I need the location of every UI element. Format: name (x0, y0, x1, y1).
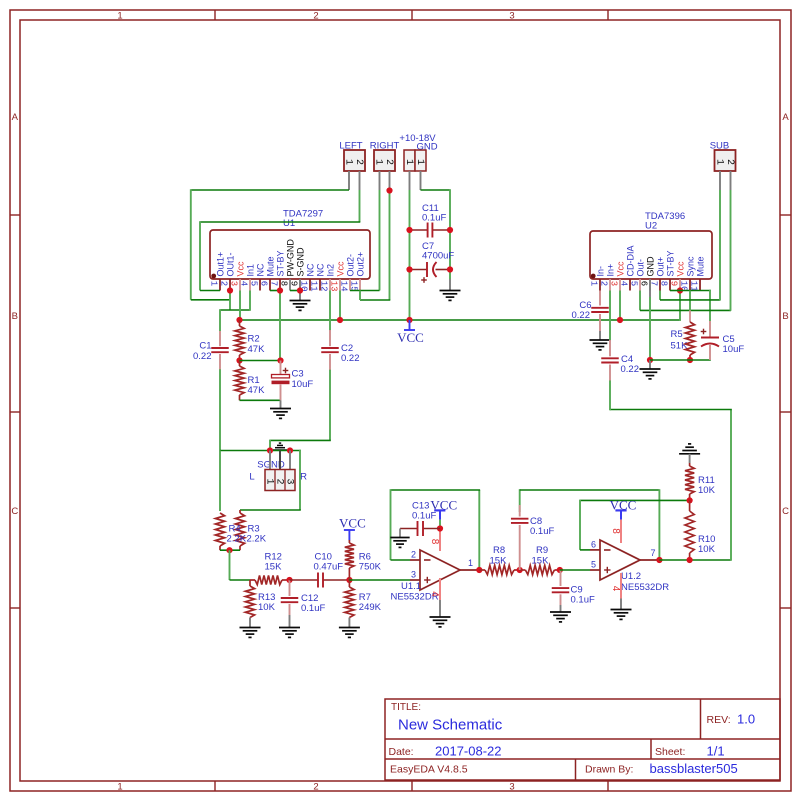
wire into U1.1 pin2 (391, 559, 411, 561)
wire U1.2 feedback top (520, 489, 660, 491)
junction C11 left (406, 227, 412, 233)
ground below R7 (348, 618, 350, 628)
svg-text:3: 3 (509, 11, 514, 22)
junction R2 bottom (236, 357, 242, 363)
VCC net flag symbol (409, 320, 411, 330)
wire to U1 pin1 (200, 290, 220, 292)
ground below R13 (249, 618, 251, 628)
svg-text:0.1uF: 0.1uF (412, 511, 436, 522)
svg-text:4700uF: 4700uF (422, 251, 454, 262)
junction R5 bottom (687, 357, 693, 363)
wire feedback U1.1 left down (390, 489, 392, 560)
svg-text:Out1+: Out1+ (215, 252, 225, 277)
capacitor C5 polarized (709, 321, 711, 337)
svg-text:10uF: 10uF (723, 344, 745, 355)
VCC flag U1.1 (439, 510, 441, 519)
op-amp U1.1 triangle (420, 550, 460, 590)
wire R4 top (219, 451, 221, 512)
resistor R11 (689, 463, 691, 466)
wire U1 pin12 down (329, 291, 331, 331)
wire mute net down x280 (279, 291, 281, 361)
U1 pin 6 lead (269, 279, 271, 291)
svg-text:REV:: REV: (707, 714, 731, 726)
junction U2 pin9 node (677, 287, 683, 293)
svg-text:3: 3 (509, 782, 514, 793)
svg-text:L: L (249, 472, 254, 483)
junction C7 right (447, 266, 453, 272)
svg-text:10K: 10K (258, 602, 276, 613)
wire GND pin jog (421, 189, 451, 191)
svg-text:A: A (782, 112, 789, 123)
wire output top to C4 (610, 409, 732, 411)
svg-text:1: 1 (117, 782, 122, 793)
title block REV divider (700, 699, 702, 739)
svg-text:8: 8 (278, 281, 288, 286)
svg-text:10K: 10K (698, 485, 716, 496)
U2 pin 4 lead (629, 279, 631, 291)
svg-text:2: 2 (383, 159, 394, 165)
svg-text:2: 2 (273, 478, 284, 484)
wire Out+ to SUB.1 horizontal (660, 299, 720, 301)
capacitor C2 (329, 330, 331, 346)
svg-text:1: 1 (713, 159, 724, 165)
VCC bus wire y320 (240, 319, 681, 321)
svg-text:9: 9 (288, 281, 298, 286)
svg-text:In1: In1 (245, 264, 255, 277)
svg-text:VCC: VCC (339, 516, 366, 531)
VCC flag U1.2 (620, 510, 622, 519)
svg-text:10K: 10K (698, 544, 716, 555)
U2 pin 3 lead (619, 279, 621, 291)
wire U1.2 feedback down (658, 489, 660, 561)
ground left of C13 (399, 529, 401, 538)
wire R9 to U1.2 pin5 (560, 569, 590, 571)
resistor R12 (250, 579, 255, 581)
U2 pin 6 lead (649, 279, 651, 291)
wire U2 pin8 to pin9 (670, 290, 680, 292)
op-amp U1.1 pin3 stub (410, 579, 420, 581)
resistor R9 (520, 569, 526, 571)
svg-text:3: 3 (608, 281, 618, 286)
junction U1 pin3 bus (236, 317, 242, 323)
wire R11 junction to pin6 horizontal (580, 499, 690, 501)
op-amp U1.2 plus symbol (604, 569, 610, 571)
resistor R8 (479, 569, 485, 571)
wire left vertical x190 (190, 189, 192, 300)
junction C10 right (346, 577, 352, 583)
capacitor C4 (609, 340, 611, 356)
svg-text:Vcc: Vcc (675, 261, 685, 277)
U1 pin 5 lead (259, 279, 261, 291)
junction U1 pin13 bus (337, 317, 343, 323)
op-amp U1.2 pin4 lead (620, 573, 622, 599)
U2 pin 10 lead (689, 279, 691, 291)
svg-text:Vcc: Vcc (235, 261, 245, 277)
junction RIGHT.2 (386, 187, 392, 193)
svg-text:0.22: 0.22 (572, 310, 591, 321)
ground below U1.2 pin4 (620, 599, 622, 610)
junction C11 right (447, 227, 453, 233)
svg-text:7: 7 (268, 281, 278, 286)
wire U2 pin10 down (689, 291, 691, 311)
svg-text:GND: GND (645, 256, 655, 277)
wire RIGHT.2 down (389, 191, 391, 301)
svg-text:0.22: 0.22 (193, 351, 212, 362)
svg-text:bassblaster505: bassblaster505 (650, 761, 738, 776)
svg-text:U1: U1 (283, 218, 295, 229)
wire +10-18V down to VCC bus (409, 190, 411, 320)
connector +10-18V body (404, 150, 415, 171)
junction C3 top (277, 357, 283, 363)
svg-text:TITLE:: TITLE: (391, 702, 421, 713)
wire U2 pin3 to bus (619, 291, 621, 321)
wire GND down x450 (449, 189, 451, 279)
wire LEFT.2 down (359, 190, 361, 222)
wire U1 pin6 to pin7 (270, 290, 280, 292)
wire SGND R to R3 (299, 450, 301, 510)
svg-text:0.47uF: 0.47uF (314, 562, 344, 573)
resistor R6 (348, 540, 350, 543)
wire RIGHT.1 down (379, 190, 381, 291)
svg-text:U2: U2 (645, 221, 657, 232)
junction U1 pin9 (297, 287, 303, 293)
U1 pin 2 lead (229, 279, 231, 291)
junction R3 R4 bottom (226, 547, 232, 553)
wire SUB.1 down (719, 190, 721, 300)
junction R9 right (557, 567, 563, 573)
ground below C3 (280, 400, 282, 408)
wire U1.2 output to R10 (659, 559, 731, 561)
svg-text:U1.2: U1.2 (621, 571, 641, 582)
resistor R3 (239, 510, 241, 513)
svg-text:2: 2 (411, 550, 416, 560)
title block row line 1 (385, 738, 780, 740)
svg-text:Out-: Out- (635, 259, 645, 277)
svg-text:1/1: 1/1 (707, 744, 725, 759)
U2 pin 5 lead (639, 279, 641, 291)
U1 pin 12 lead (329, 279, 331, 291)
capacitor C11 (410, 229, 428, 231)
U2 pin 1 lead (599, 279, 601, 291)
op-amp U1.1 pin2 stub (410, 559, 420, 561)
wire U1 pin13 to bus (339, 291, 341, 321)
ground U1 pin9 S-GND (299, 279, 301, 300)
svg-text:1: 1 (468, 558, 473, 568)
capacitor C13 (400, 528, 418, 530)
svg-text:6: 6 (638, 281, 648, 286)
capacitor C1 (219, 331, 221, 346)
wire U2 GND down (649, 279, 651, 297)
U2 pin 7 lead (659, 279, 661, 291)
wire into U1.2 pin6 (580, 549, 590, 551)
junction U1 pin7 (277, 287, 283, 293)
SGND inverted ground (273, 449, 287, 451)
U1 pin 3 lead (239, 279, 241, 291)
svg-text:5: 5 (591, 560, 596, 570)
svg-text:1: 1 (372, 159, 383, 165)
wire sum node down (229, 550, 231, 580)
junction U2 pin3 bus (617, 317, 623, 323)
resistor R1 (239, 361, 241, 367)
junction C7 left (406, 266, 412, 272)
svg-text:2: 2 (724, 159, 735, 165)
svg-text:5: 5 (248, 281, 258, 286)
svg-text:In2: In2 (325, 264, 335, 277)
svg-text:NC: NC (305, 263, 315, 276)
wire C1 bottom down to sum node (219, 369, 221, 451)
junction C13 pin8 (437, 525, 443, 531)
title block outer box (385, 699, 780, 780)
svg-text:1: 1 (403, 159, 414, 165)
svg-text:14: 14 (338, 281, 348, 292)
svg-text:2: 2 (353, 159, 364, 165)
svg-text:0.22: 0.22 (341, 353, 360, 364)
junction R8 R9 (517, 567, 523, 573)
svg-text:2.2K: 2.2K (247, 534, 267, 545)
connector SUB pin 1 (719, 171, 721, 190)
svg-text:C3: C3 (292, 369, 304, 380)
ground below C6 (599, 331, 601, 340)
svg-text:3: 3 (411, 570, 416, 580)
op-amp U1.1 pin4 lead (439, 578, 441, 600)
svg-text:NE5532DR: NE5532DR (621, 582, 669, 593)
svg-text:4: 4 (610, 586, 621, 592)
wire U2 pin2 down to C4 (609, 291, 611, 342)
ground below U2 GND (649, 360, 651, 369)
svg-text:B: B (782, 311, 788, 322)
svg-text:5: 5 (628, 281, 638, 286)
title block row line 2 (385, 758, 780, 760)
svg-text:750K: 750K (359, 562, 382, 573)
svg-text:Vcc: Vcc (615, 261, 625, 277)
svg-text:0.1uF: 0.1uF (530, 526, 554, 537)
connector SUB body (715, 150, 736, 171)
wire In1 horizontal y310 (220, 309, 250, 311)
svg-text:Sync: Sync (685, 256, 695, 277)
svg-text:Sheet:: Sheet: (655, 746, 685, 758)
svg-text:New Schematic: New Schematic (398, 717, 503, 734)
wire U2 pin5 down (639, 291, 641, 311)
svg-text:0.1uF: 0.1uF (422, 213, 446, 224)
svg-text:CD-DIA: CD-DIA (625, 246, 635, 277)
resistor R4 (215, 513, 224, 546)
svg-text:A: A (12, 112, 19, 123)
svg-text:NC: NC (315, 263, 325, 276)
svg-text:In-: In- (595, 266, 605, 277)
junction U1.2 output (656, 557, 662, 563)
svg-text:2: 2 (598, 281, 608, 286)
wire U2 pin7 down (659, 291, 661, 300)
svg-text:C1: C1 (199, 341, 211, 352)
svg-text:2: 2 (218, 281, 228, 286)
svg-text:1.0: 1.0 (737, 712, 755, 727)
ground below C9 (560, 605, 562, 612)
wire to R12 (230, 579, 251, 581)
wire LEFT.1 to node (191, 189, 349, 191)
capacitor C12 (289, 580, 291, 596)
capacitor C6 (599, 291, 601, 306)
svg-text:Drawn By:: Drawn By: (585, 764, 633, 776)
svg-text:ST-BY: ST-BY (665, 250, 675, 276)
svg-text:VCC: VCC (610, 498, 637, 513)
wire feedback U1.1 output up (478, 490, 480, 571)
svg-text:7: 7 (651, 548, 656, 558)
op-amp chip U1 body (210, 230, 370, 279)
svg-text:2: 2 (313, 11, 318, 22)
ground below U1.1 pin4 (439, 600, 441, 617)
wire C2 to SGND left (270, 439, 331, 441)
wire feedback U1.1 top (391, 489, 481, 491)
svg-text:1: 1 (588, 281, 598, 286)
svg-text:8: 8 (429, 539, 440, 545)
connector SUB pin 2 (730, 171, 732, 190)
junction R11 R10 (687, 497, 693, 503)
svg-text:Out+: Out+ (655, 257, 665, 277)
wire Out- to SUB.2 horizontal (640, 309, 731, 311)
U1 pin 13 lead (339, 279, 341, 291)
junction R12 right (286, 577, 292, 583)
svg-text:15K: 15K (265, 562, 283, 573)
U1 pin 4 lead (249, 279, 251, 291)
svg-text:ST-BY: ST-BY (275, 250, 285, 276)
U1 pin 14 lead (349, 279, 351, 291)
resistor R5 (689, 310, 691, 322)
op-amp U1.1 plus symbol (424, 579, 430, 581)
svg-text:10uF: 10uF (292, 379, 314, 390)
op-amp U1.2 minus symbol (604, 549, 611, 551)
svg-text:3: 3 (228, 281, 238, 286)
op-amp U1.2 pin5 stub (590, 569, 600, 571)
wire U1 pin2 down (229, 291, 231, 311)
op-amp U1.2 triangle (600, 540, 640, 580)
resistor R7 (348, 580, 350, 587)
svg-text:1: 1 (342, 159, 353, 165)
svg-text:3: 3 (283, 478, 294, 484)
svg-text:1: 1 (263, 478, 274, 484)
wire SGND row (220, 450, 301, 452)
junction SGND L (267, 447, 273, 453)
connector LEFT P1 (344, 150, 365, 171)
svg-text:47K: 47K (248, 344, 266, 355)
svg-text:1: 1 (414, 159, 425, 165)
op-amp U1.2 output stub (640, 559, 659, 561)
svg-text:C: C (11, 506, 18, 517)
amplifier chip U2 body (590, 231, 712, 279)
U1 pin 1 lead (219, 279, 221, 291)
svg-text:B: B (12, 311, 18, 322)
svg-text:6: 6 (591, 540, 596, 550)
svg-text:PW-GND: PW-GND (285, 239, 295, 277)
inverted ground above R11 (679, 453, 700, 455)
wire R3 R4 bottom tie (220, 549, 240, 551)
wire In1 up to pin4 (249, 291, 251, 311)
svg-text:47K: 47K (248, 385, 266, 396)
svg-text:Date:: Date: (389, 746, 414, 758)
junction U1 pin2 (227, 287, 233, 293)
svg-text:9: 9 (668, 281, 678, 286)
U1 pin 11 lead (319, 279, 321, 291)
U1 pin 8 lead (289, 279, 291, 291)
wire GND node to C5 (650, 359, 711, 361)
svg-text:R2: R2 (248, 334, 260, 345)
resistor R13 (249, 580, 251, 586)
capacitor C7 polarized (410, 269, 428, 271)
svg-text:0.22: 0.22 (621, 364, 640, 375)
ground below C7 (449, 279, 451, 290)
VCC flag above R6 (348, 530, 350, 541)
wire pin9 node to C5 (680, 290, 711, 292)
svg-text:VCC: VCC (397, 330, 424, 345)
U2 pin 2 lead (609, 279, 611, 291)
svg-text:Out2+: Out2+ (355, 252, 365, 277)
wire U1 pin3 to bus (239, 291, 241, 321)
U1 pin 15 lead (359, 279, 361, 291)
title block Sheet divider (650, 739, 652, 759)
svg-text:2017-08-22: 2017-08-22 (435, 744, 502, 759)
junction U2 GND node (647, 357, 653, 363)
op-amp U1.2 pin8 lead (620, 520, 622, 543)
svg-text:Vcc: Vcc (335, 261, 345, 277)
wire C5 top vertical (709, 290, 711, 321)
svg-text:2: 2 (313, 782, 318, 793)
wire R2 R1 node to C3 (240, 360, 281, 362)
wire U1 pin15 up (359, 291, 361, 301)
connector RIGHT body (374, 150, 395, 171)
op-amp U1.2 pin6 stub (590, 549, 600, 551)
svg-text:R5: R5 (671, 329, 683, 340)
svg-text:1: 1 (117, 11, 122, 22)
connector GND pin 1 (420, 171, 422, 190)
connector LEFT pin 2 (359, 171, 361, 190)
svg-text:0.1uF: 0.1uF (571, 595, 595, 606)
wire pin6 loop down (579, 500, 581, 550)
wire SUB.2 down (730, 190, 732, 311)
svg-text:4: 4 (618, 281, 628, 286)
wire R1 bottom to C3 bottom (240, 399, 281, 401)
capacitor C9 (560, 570, 562, 586)
svg-text:NC: NC (255, 263, 265, 276)
capacitor C3 polarized (280, 361, 282, 375)
svg-text:4: 4 (238, 281, 248, 286)
svg-text:EasyEDA V4.8.5: EasyEDA V4.8.5 (390, 764, 468, 776)
op-amp U1.1 output stub (460, 569, 479, 571)
wire output up right side (730, 410, 732, 561)
wire U1 pin8 to pin9 (290, 290, 300, 292)
junction U1.1 output (476, 567, 482, 573)
svg-text:R9: R9 (536, 545, 548, 556)
svg-text:R8: R8 (493, 545, 505, 556)
title block DrawnBy divider (575, 759, 577, 780)
svg-text:Out2-: Out2- (345, 254, 355, 277)
connector SGND pin 3 (289, 451, 291, 470)
capacitor C8 (519, 505, 521, 517)
U2 pin 8 lead (669, 279, 671, 291)
svg-text:6: 6 (258, 281, 268, 286)
wire C2 bottom down (329, 370, 331, 441)
svg-text:C: C (782, 506, 789, 517)
junction SGND R (287, 447, 293, 453)
U1 pin 7 lead (279, 279, 281, 291)
op-amp U1.1 minus symbol (424, 559, 431, 561)
wire to U1 pin2 branch (191, 299, 230, 301)
svg-text:Mute: Mute (265, 256, 275, 276)
capacitor C10 (290, 579, 319, 581)
svg-text:12: 12 (318, 281, 328, 292)
svg-text:Mute: Mute (695, 256, 705, 276)
svg-text:U1.1: U1.1 (401, 581, 421, 592)
connector SGND pin 2 (279, 451, 281, 470)
svg-text:2.2K: 2.2K (227, 534, 247, 545)
